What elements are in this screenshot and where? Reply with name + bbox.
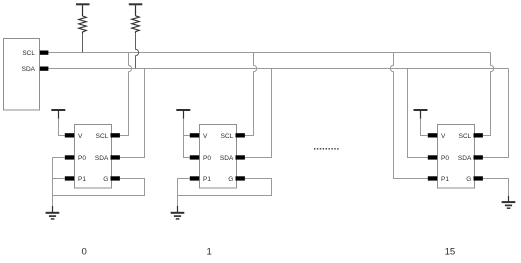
op IC1 body xyxy=(75,125,112,189)
pin P1 (IC1) xyxy=(65,176,74,180)
wire power to V pin (IC3) xyxy=(421,119,428,136)
pin SDA (IC3) xyxy=(474,155,483,159)
pin V (IC1) xyxy=(65,133,74,137)
ground (IC1) xyxy=(46,206,60,219)
wire P1 to ground rail (IC2) xyxy=(178,179,190,209)
op IC2 body xyxy=(200,125,237,189)
master SCL pin xyxy=(40,51,49,55)
wire SCL bus end drop to SCL pin (hop over SDA, IC3) xyxy=(483,53,494,136)
op IC3 body xyxy=(438,125,475,189)
wire G to ground (IC3) xyxy=(483,179,509,202)
svg-text:P1: P1 xyxy=(441,176,449,183)
wire SDA bus xyxy=(48,68,508,70)
resistor R1 (SCL pull-up) xyxy=(76,4,90,33)
svg-text:SDA: SDA xyxy=(95,155,109,162)
power symbol V+ (IC3) xyxy=(414,110,428,119)
pin SCL (IC1) xyxy=(111,133,120,137)
svg-text:SDA: SDA xyxy=(458,155,472,162)
pin SDA (IC1) xyxy=(111,155,120,159)
svg-text:P1: P1 xyxy=(78,176,86,183)
svg-text:SCL: SCL xyxy=(221,133,234,140)
pin P0 (IC1) xyxy=(65,155,74,159)
pin V (IC2) xyxy=(190,133,199,137)
svg-text:SDA: SDA xyxy=(22,66,36,73)
pin P0 (IC3) xyxy=(428,155,437,159)
ellipsis between devices xyxy=(314,148,339,150)
svg-text:P1: P1 xyxy=(203,176,211,183)
svg-text:0: 0 xyxy=(82,246,87,257)
resistor R2 (SDA pull-up) xyxy=(129,4,143,33)
pin V (IC3) xyxy=(428,133,437,137)
svg-text:V: V xyxy=(78,133,83,140)
wire IC1 SCL drop (hop over SDA) xyxy=(120,53,132,136)
pin G (IC2) xyxy=(236,176,245,180)
svg-text:15: 15 xyxy=(445,246,456,257)
wire IC1 SDA drop xyxy=(120,69,145,158)
svg-text:G: G xyxy=(228,176,233,183)
power symbol V+ (IC1) xyxy=(51,110,65,119)
pin P1 (IC2) xyxy=(190,176,199,180)
master SDA pin xyxy=(40,67,49,71)
svg-text:SCL: SCL xyxy=(459,133,472,140)
power symbol V+ (IC2) xyxy=(176,110,190,119)
svg-text:SCL: SCL xyxy=(96,133,109,140)
svg-text:SDA: SDA xyxy=(220,155,234,162)
svg-text:P0: P0 xyxy=(78,155,86,162)
wire P0 to SDA bus (IC3) xyxy=(408,69,428,158)
svg-text:P0: P0 xyxy=(441,155,449,162)
wire SCL bus xyxy=(48,52,490,54)
pin P0 (IC2) xyxy=(190,155,199,159)
svg-text:SCL: SCL xyxy=(22,50,35,57)
wire power to V and P0 pins (IC2) xyxy=(184,119,190,158)
pin G (IC1) xyxy=(111,176,120,180)
pin SDA (IC2) xyxy=(236,155,245,159)
svg-text:1: 1 xyxy=(207,246,212,257)
svg-text:P0: P0 xyxy=(203,155,211,162)
ground (IC2) xyxy=(171,206,185,219)
pin SCL (IC3) xyxy=(474,133,483,137)
wire P0/P1 to ground rail (IC1) xyxy=(53,158,65,209)
svg-text:V: V xyxy=(203,133,208,140)
wire R2 lead to SDA, hop over SCL xyxy=(136,33,139,68)
master controller box xyxy=(4,39,40,111)
svg-text:G: G xyxy=(103,176,108,183)
wire R1 lead to SCL xyxy=(82,34,84,53)
wire power to V pin (IC1) xyxy=(59,119,65,136)
ground (IC3) xyxy=(502,196,516,208)
wire G return loop (IC2) xyxy=(178,179,272,196)
wire IC2 SCL drop (hop over SDA) xyxy=(245,53,257,136)
wire SDA bus end drop to SDA pin (IC3) xyxy=(483,69,509,158)
svg-text:G: G xyxy=(466,176,471,183)
svg-text:V: V xyxy=(441,133,446,140)
pin G (IC3) xyxy=(474,176,483,180)
pin P1 (IC3) xyxy=(428,176,437,180)
wire IC2 SDA drop xyxy=(245,69,272,158)
wire P1 to SCL bus (hop over SDA, IC3) xyxy=(390,53,427,179)
pin SCL (IC2) xyxy=(236,133,245,137)
wire G return loop (IC1) xyxy=(53,179,145,196)
